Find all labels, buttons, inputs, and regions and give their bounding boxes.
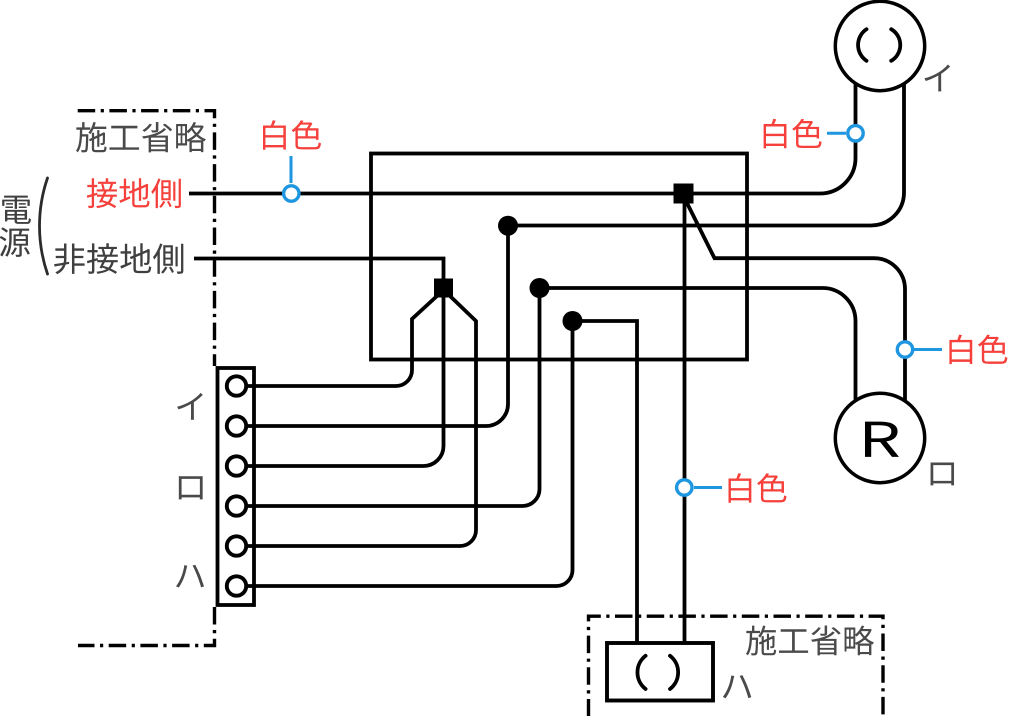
terminal circle 4 (227, 496, 246, 515)
lamp I parens (858, 29, 866, 61)
label: non-grounded side (54, 243, 84, 274)
white-wire marker 4 (bottom lamp) (694, 486, 722, 489)
source bracket (39, 178, 47, 274)
terminal circle 3 (227, 456, 246, 475)
label: power source (vertical) (2, 196, 31, 224)
wire: dot junction 2 down to terminal 4 (246, 288, 540, 506)
wire: dot junction 3 down to terminal 6 (246, 321, 573, 586)
wire: non-grounded line from source to left connector square (194, 259, 444, 283)
lamp I circle (835, 1, 924, 90)
bottom lamp parens (637, 656, 645, 689)
label: lamp RO (930, 462, 954, 485)
wire: lamp I right terminal down through dot junction to switch terminal 2 (246, 60, 904, 426)
terminal circle 5 (227, 536, 246, 555)
label: white 3 (949, 335, 972, 365)
left construction-omitted dash-dot border (78, 111, 215, 366)
label: lamp I (924, 64, 950, 91)
label: lamp HA (723, 675, 751, 698)
lamp R circle (835, 393, 924, 482)
junction dot 2 (530, 278, 550, 298)
white-wire marker 2 (lamp I) (827, 132, 846, 135)
wire: right square down to bottom lamp right wire (683, 196, 687, 650)
wire: dot junction 3 right then down to bottom lamp left wire (573, 321, 638, 650)
label: grounded side (87, 178, 117, 208)
wire: left square fan to terminal 5 (246, 296, 476, 546)
label: construction omitted (bottom) (746, 626, 776, 656)
white-wire marker 1 (neutral line) (290, 156, 293, 183)
label: white 2 (764, 119, 787, 149)
label: switch group I (177, 393, 203, 420)
terminal circle 1 (227, 376, 246, 395)
wire: right square diagonal to lamp R right terminal (687, 202, 906, 410)
connector square (right, neutral junction) (674, 184, 694, 204)
junction dot 3 (563, 311, 583, 331)
connector square (left, non-grounded feed) (434, 279, 453, 298)
label: white 1 (263, 120, 286, 150)
terminal strip (218, 368, 255, 605)
label: white 4 (729, 473, 752, 503)
white-wire marker 3 (lamp R) (914, 348, 943, 351)
terminal circle 2 (227, 416, 246, 435)
bottom construction-omitted dash-dot border (589, 616, 884, 716)
label: switch group HA (176, 565, 204, 588)
lamp R letter (865, 422, 899, 457)
wire: left square middle to terminal 3 (246, 295, 444, 466)
terminal circle 6 (227, 576, 246, 595)
bottom lamp box (607, 643, 713, 701)
junction dot 1 (498, 216, 518, 236)
wire: grounded (neutral) line from source through box to lamp I left terminal (189, 60, 856, 194)
label: switch group RO (179, 476, 203, 499)
wire: dot junction 2 right to lamp R left terminal (540, 288, 856, 410)
wire: left square fan to terminal 1 (246, 296, 437, 386)
label: construction omitted (left) (76, 122, 107, 152)
junction box outline (371, 154, 747, 360)
